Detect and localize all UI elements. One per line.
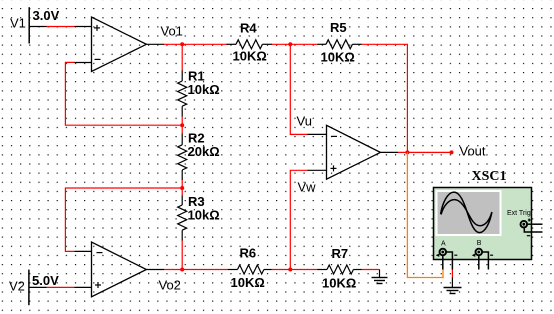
wire V1 to U1 + input — [47, 26, 75, 28]
oscilloscope XSC1 — [434, 169, 543, 270]
svg-text:B: B — [477, 240, 482, 247]
svg-text:5.0V: 5.0V — [32, 273, 59, 288]
node R2/R3 — [180, 186, 184, 190]
wire U1 feedback to R1/R2 node — [65, 62, 182, 125]
svg-text:Vout: Vout — [460, 144, 486, 159]
wire R2 to node — [181, 180, 183, 188]
svg-text:10KΩ: 10KΩ — [321, 50, 355, 65]
resistor R5 — [318, 20, 362, 65]
svg-text:XSC1: XSC1 — [472, 169, 507, 184]
svg-text:V2: V2 — [9, 278, 25, 293]
svg-text:R4: R4 — [240, 20, 257, 35]
resistor R1 — [178, 69, 220, 117]
svg-text:Vu: Vu — [297, 114, 312, 129]
wire scope A- to ground — [451, 270, 453, 278]
wire U3 output to Vout — [398, 151, 452, 153]
resistor R3 — [178, 194, 220, 241]
svg-text:10KΩ: 10KΩ — [233, 49, 267, 64]
wire orange: output junction to scope input A — [407, 152, 443, 277]
node Vout — [450, 150, 454, 154]
wire V2 to U2 + input — [47, 286, 75, 288]
ground GND2 — [444, 278, 462, 294]
op-amp U1 — [75, 17, 165, 71]
svg-text:20kΩ: 20kΩ — [188, 144, 220, 159]
node R6/R7 — [288, 268, 292, 272]
node Vo1 — [180, 42, 184, 46]
svg-text:R6: R6 — [240, 246, 257, 261]
svg-text:A: A — [441, 240, 446, 247]
wire U2 output to R6 — [164, 269, 228, 271]
node R4/R5 — [288, 42, 292, 46]
voltage source V2 — [9, 270, 59, 306]
node Vo2 — [180, 268, 184, 272]
ground GND1 — [372, 270, 388, 284]
svg-text:10kΩ: 10kΩ — [188, 82, 220, 97]
svg-text:Vo2: Vo2 — [159, 278, 181, 293]
wire R2/R3 node feedback to U2 - input — [65, 188, 182, 251]
svg-text:R7: R7 — [332, 246, 349, 261]
op-amp U2 — [75, 242, 165, 297]
svg-text:Ext Trig: Ext Trig — [507, 210, 531, 217]
svg-text:10KΩ: 10KΩ — [322, 276, 356, 291]
wire R7 to ground — [362, 269, 380, 271]
wire Vo1 down to R1 — [181, 44, 183, 70]
svg-text:Vo1: Vo1 — [161, 24, 183, 39]
wire R1 to node — [181, 117, 183, 126]
wire node to R2 — [181, 125, 183, 133]
voltage source V1 — [10, 7, 60, 43]
wire R6/R7 node up to U3 + input (Vw) — [290, 170, 307, 269]
svg-text:R5: R5 — [330, 20, 347, 35]
wire R6 to R7 — [272, 269, 318, 271]
resistor R4 — [227, 20, 273, 63]
wire R4 to R5 — [272, 43, 318, 45]
svg-text:V1: V1 — [10, 16, 26, 31]
resistor R2 — [178, 131, 220, 181]
wire U1 output to R4 — [164, 43, 227, 45]
svg-text:10kΩ: 10kΩ — [188, 208, 220, 223]
svg-text:10KΩ: 10KΩ — [231, 275, 265, 290]
op-amp U3 — [308, 125, 399, 179]
node output junction — [405, 150, 409, 154]
wire R4/R5 node down to U3 - input (Vu) — [290, 44, 307, 134]
node R1/R2 — [180, 123, 184, 127]
wire node to R3 — [181, 188, 183, 196]
svg-text:Vw: Vw — [298, 180, 317, 195]
resistor R7 — [318, 246, 362, 291]
wire R5 to output node (feedback) — [362, 44, 408, 152]
wire R3 to Vo2 node — [181, 241, 183, 270]
svg-text:3.0V: 3.0V — [33, 8, 60, 23]
resistor R6 — [228, 246, 272, 291]
